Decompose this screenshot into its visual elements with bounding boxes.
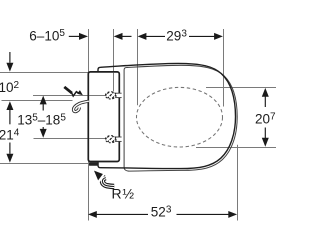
extension line 52.3 right [237,145,239,221]
water hose hook [73,101,88,111]
dashed bowl ellipse [137,87,223,147]
svg-text:102: 102 [0,80,20,95]
counter arrow at bolt axis [114,33,132,40]
svg-text:293: 293 [166,28,187,43]
lid outline (dark) [98,63,236,168]
bolt 2 axis line over unit [89,138,106,140]
dimension 13.5-18.5 arrows [40,96,47,138]
fixing bolt 1 head [102,89,120,106]
water connection pad [89,162,99,166]
dimension 20.7 arrows [262,88,269,147]
fixing bolt 2 head [102,133,120,150]
fixing bolt 2 shaft [113,137,122,141]
wall extension line [88,29,90,221]
extension line top of unit (10.2 upper ref) [0,72,88,74]
svg-text:6–105: 6–105 [29,28,65,43]
svg-text:R½: R½ [112,185,135,201]
extension line bolt 1 axis (13.5-18.5 upper ref) [33,95,106,97]
bolt 1 axis line over unit [89,95,106,97]
extension line bottom of unit (21.4 lower ref) [0,163,88,165]
extension line 29.3 right [223,29,225,107]
seat ring outline (thin) [124,65,237,171]
svg-text:135–185: 135–185 [17,113,66,128]
svg-text:523: 523 [151,204,172,219]
dimension 21.4 arrow [6,143,13,163]
extension line bolt axis (6-10.5 right end) [113,29,115,91]
extension line bolt 2 axis (13.5-18.5 lower ref) [34,138,106,140]
dimension 29.3 [138,33,223,40]
extension line bowl top (20.7 upper ref) [206,87,276,89]
svg-text:207: 207 [255,112,276,127]
dimension 10.2 arrows [6,52,13,124]
bolt extension line over unit [113,73,115,92]
fixing bolt 1 shaft [113,93,122,97]
extension line bowl bottom (20.7 lower ref) [196,147,276,149]
lightning arrow (power connection) [64,87,83,96]
extension line water connection (10.2 lower ref) [2,100,73,102]
R half arrow (water connection pointer) [94,171,114,187]
dimension 6-10.5 line and arrow [69,33,88,40]
extension line 29.3 left [137,29,139,105]
svg-text:214: 214 [0,127,20,142]
dimension 52.3 [88,211,237,218]
service unit box [88,72,119,162]
